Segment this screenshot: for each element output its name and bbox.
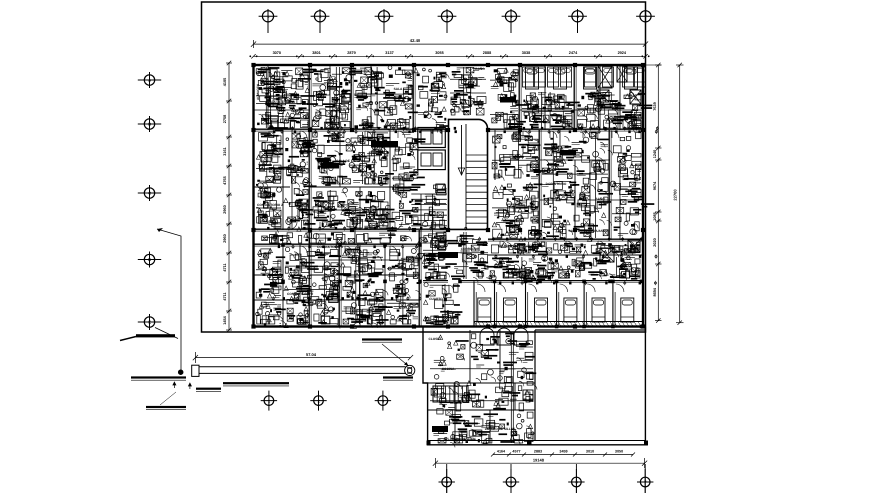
stair core xyxy=(449,119,488,229)
svg-text:4765: 4765 xyxy=(223,176,227,184)
svg-text:SALA: SALA xyxy=(394,87,403,91)
svg-text:2474: 2474 xyxy=(569,51,578,55)
svg-text:9674: 9674 xyxy=(653,181,657,190)
bottom wall hatch xyxy=(474,322,477,327)
svg-text:4711: 4711 xyxy=(223,292,227,300)
labels xyxy=(131,376,186,378)
equipment blocks xyxy=(598,66,612,88)
svg-text:C: C xyxy=(148,191,151,196)
svg-text:4577: 4577 xyxy=(512,450,520,454)
grid bubble bottom-left 1 xyxy=(261,400,277,402)
svg-text:22700: 22700 xyxy=(673,189,678,201)
svg-text:3050: 3050 xyxy=(615,450,623,454)
svg-text:A: A xyxy=(148,78,151,83)
wall markers xyxy=(272,127,274,129)
columns xyxy=(251,63,255,67)
thick bar + leader from bubble E xyxy=(136,334,175,337)
svg-text:1240: 1240 xyxy=(653,150,657,158)
ramp bar xyxy=(199,366,406,368)
west stair xyxy=(411,193,447,195)
svg-text:1454: 1454 xyxy=(223,315,227,324)
svg-text:CLOSET: CLOSET xyxy=(429,337,442,341)
svg-text:BAÑO: BAÑO xyxy=(475,67,485,71)
svg-text:3459: 3459 xyxy=(559,450,567,454)
main floor plan outline xyxy=(254,65,644,327)
svg-text:DORM.: DORM. xyxy=(555,107,566,111)
svg-text:2883: 2883 xyxy=(534,450,542,454)
svg-text:2758: 2758 xyxy=(223,115,227,123)
grid bubble 7 bottom xyxy=(644,464,646,493)
ramp detail leader line xyxy=(157,229,181,372)
bottom segment dimensions xyxy=(493,454,633,456)
grid bubble bottom-left 2 xyxy=(310,400,326,402)
ramp end circle xyxy=(405,365,415,375)
black label chips xyxy=(371,141,398,148)
svg-text:42.40: 42.40 xyxy=(410,38,421,43)
grid bubble bottom-left 3 xyxy=(375,400,391,402)
grid bubble 3 top xyxy=(375,15,394,17)
svg-text:2879: 2879 xyxy=(347,51,355,55)
svg-text:2960: 2960 xyxy=(223,234,227,242)
room furniture clutter xyxy=(270,67,272,128)
svg-text:CORREDOR: CORREDOR xyxy=(461,247,480,251)
svg-text:OFICINA: OFICINA xyxy=(338,107,352,111)
svg-text:HALL: HALL xyxy=(401,257,410,261)
bottom overall dimension 19148 xyxy=(435,462,644,464)
svg-text:HALL: HALL xyxy=(511,157,520,161)
svg-text:57.04: 57.04 xyxy=(306,352,317,357)
left dimension chain xyxy=(228,63,230,330)
extension stair xyxy=(432,386,434,402)
ramp detail dimension 5704 xyxy=(195,357,410,359)
svg-text:DIRECCION: DIRECCION xyxy=(281,167,300,171)
svg-text:SALA DE OPER.: SALA DE OPER. xyxy=(350,219,375,223)
right overall dimension 22700 xyxy=(679,65,681,323)
grid bubble D left xyxy=(138,259,161,261)
svg-text:LAVADO DE SILLAS: LAVADO DE SILLAS xyxy=(485,427,516,431)
plan major walls xyxy=(254,128,449,130)
svg-text:SALA DE ESPERA: SALA DE ESPERA xyxy=(267,100,296,104)
grid bubble 4 top xyxy=(438,15,457,17)
grid bubble 5 top xyxy=(502,15,521,17)
grid bubble A left xyxy=(138,79,161,81)
svg-text:D: D xyxy=(148,257,151,262)
cross symbol xyxy=(523,390,533,400)
black label chip xyxy=(432,426,448,432)
svg-text:4711: 4711 xyxy=(223,263,227,271)
grid bubble 4 bottom xyxy=(446,464,448,493)
grid bubble 2 top xyxy=(311,15,330,17)
svg-text:3055: 3055 xyxy=(435,51,443,55)
svg-text:BAÑO: BAÑO xyxy=(595,197,605,201)
grid bubble 6 bottom xyxy=(575,464,577,493)
svg-text:ALMACEN: ALMACEN xyxy=(256,83,260,100)
top-right beds xyxy=(523,67,534,87)
grid bubble B left xyxy=(138,123,161,125)
svg-text:CONSULTORIO 3: CONSULTORIO 3 xyxy=(317,245,343,249)
grid bubble C left xyxy=(138,192,161,194)
svg-text:3010: 3010 xyxy=(586,450,594,454)
svg-text:2924: 2924 xyxy=(618,51,627,55)
top bed rooms xyxy=(526,67,539,89)
svg-text:COCINA: COCINA xyxy=(442,367,455,371)
top overall dimension xyxy=(254,43,646,45)
svg-text:SALA BIENVENIDA/ASEO: SALA BIENVENIDA/ASEO xyxy=(568,229,608,233)
svg-text:B: B xyxy=(148,122,151,127)
grid bubble 5 bottom xyxy=(510,464,512,493)
bottom-right bed units xyxy=(473,281,475,326)
svg-text:3070: 3070 xyxy=(273,51,281,55)
grid bubble E left xyxy=(138,321,161,323)
svg-text:19148: 19148 xyxy=(533,457,545,462)
lower extension outline xyxy=(423,327,648,445)
scalloped booths xyxy=(480,328,494,345)
svg-text:2888: 2888 xyxy=(483,51,491,55)
svg-text:1085: 1085 xyxy=(653,212,657,220)
property line border xyxy=(202,2,646,332)
svg-text:3137: 3137 xyxy=(385,51,393,55)
right dimension chain xyxy=(657,65,659,321)
svg-text:3801: 3801 xyxy=(312,51,320,55)
elevators xyxy=(418,128,446,148)
svg-text:CONSULTORIO 2: CONSULTORIO 2 xyxy=(257,203,283,207)
svg-text:7639: 7639 xyxy=(653,102,657,110)
svg-text:4164: 4164 xyxy=(497,450,506,454)
svg-text:3038: 3038 xyxy=(522,51,530,55)
top segment dimensions xyxy=(254,55,646,57)
svg-text:3161: 3161 xyxy=(223,147,227,155)
svg-text:SALA DE ESPERA: SALA DE ESPERA xyxy=(336,159,365,163)
svg-text:4105: 4105 xyxy=(223,78,227,86)
svg-text:DORMITORIO: DORMITORIO xyxy=(546,182,567,186)
arrows xyxy=(173,382,176,388)
grid bubble 7 top xyxy=(636,15,655,17)
extension walls xyxy=(423,382,535,384)
svg-text:8694: 8694 xyxy=(653,287,657,296)
svg-text:2020: 2020 xyxy=(653,238,657,246)
grid bubble 1 top xyxy=(259,15,278,17)
svg-text:SALA DE ESPERA GENERAL: SALA DE ESPERA GENERAL xyxy=(498,244,542,248)
grid bubble 6 top xyxy=(568,15,587,17)
extension inner white rect xyxy=(534,330,536,441)
svg-text:SALA: SALA xyxy=(356,297,365,301)
svg-text:CONSULTORIO 1: CONSULTORIO 1 xyxy=(287,292,313,296)
node dot xyxy=(178,370,183,375)
svg-text:2960: 2960 xyxy=(223,205,227,213)
svg-text:CUARTO: CUARTO xyxy=(429,297,443,301)
svg-text:E: E xyxy=(148,320,151,325)
